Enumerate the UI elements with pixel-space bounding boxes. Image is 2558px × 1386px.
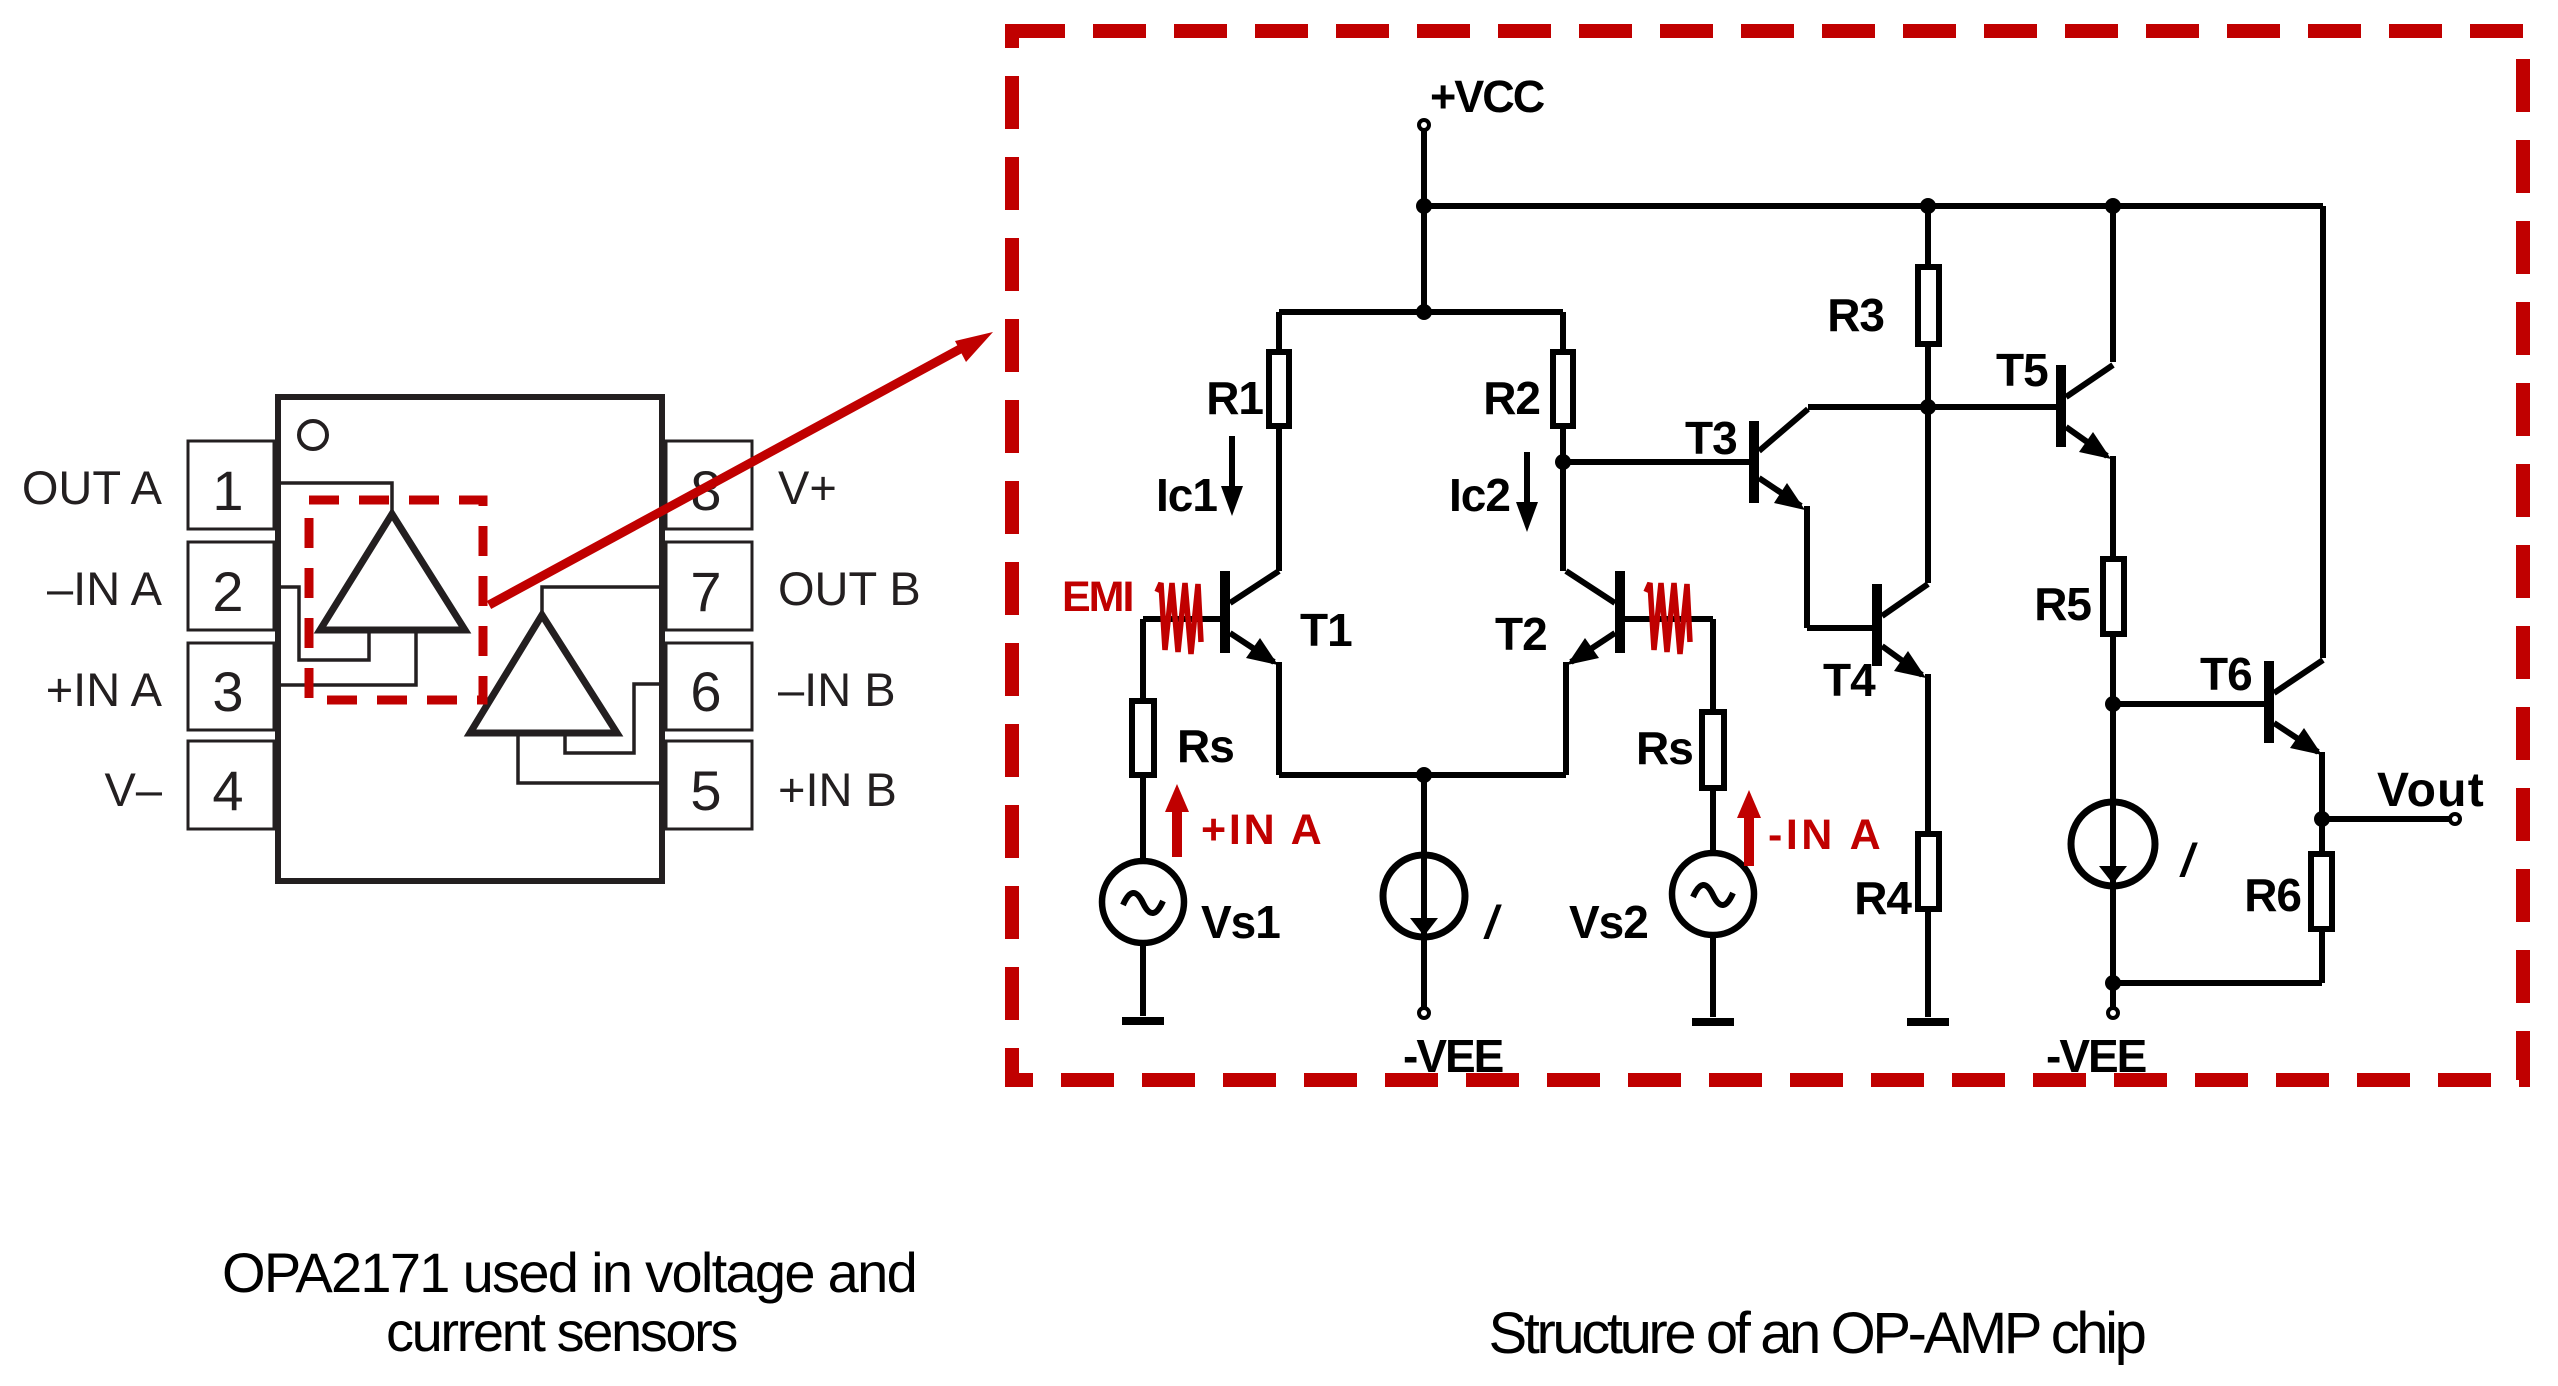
svg-text:R6: R6	[2244, 869, 2301, 921]
svg-text:Ic2: Ic2	[1449, 469, 1510, 521]
svg-text:Vs1: Vs1	[1201, 896, 1280, 948]
svg-text:R1: R1	[1206, 372, 1263, 424]
svg-text:R5: R5	[2034, 578, 2091, 630]
svg-text:T2: T2	[1495, 608, 1547, 660]
svg-text:2: 2	[212, 560, 243, 623]
svg-text:T6: T6	[2200, 648, 2252, 700]
svg-text:T3: T3	[1685, 412, 1737, 464]
svg-text:4: 4	[212, 759, 243, 822]
svg-text:-VEE: -VEE	[2046, 1030, 2146, 1082]
svg-text:+IN A: +IN A	[1201, 806, 1325, 854]
svg-text:-VEE: -VEE	[1403, 1030, 1503, 1082]
svg-text:6: 6	[690, 660, 721, 723]
svg-text:-IN A: -IN A	[1768, 811, 1884, 859]
svg-text:V+: V+	[778, 461, 837, 514]
svg-text:–IN A: –IN A	[47, 562, 163, 615]
svg-text:+IN B: +IN B	[778, 763, 897, 816]
svg-text:EMI: EMI	[1062, 573, 1133, 621]
svg-text:1: 1	[212, 459, 243, 522]
svg-text:R2: R2	[1483, 372, 1540, 424]
svg-text:OUT B: OUT B	[778, 562, 921, 615]
svg-text:OPA2171 used in voltage and: OPA2171 used in voltage and	[222, 1241, 916, 1304]
svg-text:+VCC: +VCC	[1430, 71, 1545, 122]
svg-text:Vout: Vout	[2377, 764, 2485, 817]
svg-text:–IN B: –IN B	[778, 663, 896, 716]
svg-text:+IN A: +IN A	[46, 663, 163, 716]
svg-text:Ic1: Ic1	[1156, 469, 1217, 521]
svg-text:Structure of an OP-AMP chip: Structure of an OP-AMP chip	[1488, 1301, 2144, 1366]
svg-text:current sensors: current sensors	[386, 1300, 736, 1363]
svg-text:R4: R4	[1854, 872, 1912, 924]
svg-text:5: 5	[690, 759, 721, 822]
svg-text:3: 3	[212, 660, 243, 723]
svg-text:OUT A: OUT A	[22, 461, 163, 514]
svg-text:7: 7	[690, 560, 721, 623]
svg-text:T5: T5	[1996, 344, 2048, 396]
svg-text:Rs: Rs	[1636, 722, 1693, 774]
svg-text:Vs2: Vs2	[1569, 896, 1648, 948]
svg-text:V–: V–	[105, 763, 163, 816]
svg-text:Rs: Rs	[1177, 720, 1234, 772]
svg-text:R3: R3	[1827, 289, 1884, 341]
svg-text:T4: T4	[1823, 654, 1876, 706]
svg-text:T1: T1	[1300, 604, 1352, 656]
